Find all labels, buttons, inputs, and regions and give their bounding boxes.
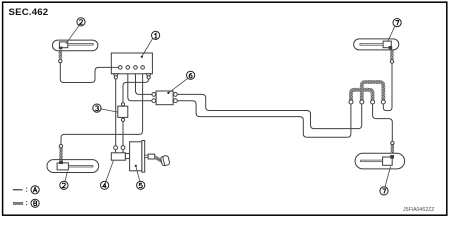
block 4 port stubs: [115, 150, 117, 153]
blob hose 2b bottom-left: [59, 161, 63, 165]
wire: actuator left lower port to master cylinder port A: [115, 79, 117, 146]
hose stub bottom-right: [391, 145, 394, 158]
label 6: [167, 71, 194, 94]
axle hose U tall: fitting2 to fitting4: [362, 82, 384, 101]
master cylinder 5 step collar: [125, 153, 129, 158]
wire: rear circuit P, junction C1 right-top to axle fitting 2: [177, 94, 362, 128]
master cylinder 5 flange: [142, 141, 145, 173]
valve 3 body: [118, 106, 128, 117]
junction 6 port stubs: [154, 93, 157, 95]
svg-text:SEC.462: SEC.462: [9, 7, 49, 18]
hose 7b inner pipe: [361, 160, 383, 162]
hose 2 pipe circle: [59, 59, 62, 62]
wire: actuator right lower port to valve 3 top: [123, 79, 149, 103]
actuator pin stub: [111, 66, 118, 68]
hose 2 inner pipe: [68, 44, 93, 46]
rear hose 7 (top-right) stadium body: [354, 39, 399, 50]
front hose 2 (top-left) stadium body: [52, 40, 98, 51]
wire: rear circuit Q, junction C1 right-bottom to axle fitting 1: [177, 101, 351, 138]
wire: axle fitting 3 to bottom-right hose: [373, 104, 393, 141]
pedal clevis connector: [160, 155, 170, 166]
actuator internal ports: [119, 66, 123, 70]
label 7 top: [388, 19, 402, 42]
legend hose sample B: [13, 202, 23, 204]
label 2 top: [66, 18, 85, 44]
wire: actuator port 2 to junction C1 left-bottom: [128, 69, 152, 101]
master cylinder 5 body: [130, 142, 142, 171]
valve 3 top port: [121, 103, 124, 106]
pushrod block: [148, 154, 155, 159]
hose 7t inner pipe: [360, 44, 383, 46]
hose 2b inner pipe: [68, 166, 93, 168]
hose 7t fitting block: [383, 41, 391, 48]
label 5: [135, 165, 145, 190]
rear hose 7 (bottom-right) stadium body: [355, 153, 405, 169]
blob hose 7t top-right: [389, 46, 393, 49]
hose 7t pipe circle: [390, 60, 393, 63]
actuator lower-right port: [146, 74, 150, 76]
junction connector 6 body: [156, 91, 173, 105]
hose 2b fitting block: [57, 163, 68, 170]
wire: actuator port 3 to junction C1 left-top: [136, 69, 152, 95]
hose 2b pipe circle: [59, 145, 62, 148]
front hose 2 (bottom-left) stadium body: [47, 160, 99, 173]
blob hose 7b bottom-right: [390, 155, 394, 159]
hose 2 fitting block: [59, 42, 67, 48]
hose stub top-right: [390, 48, 393, 60]
label 4: [101, 161, 114, 190]
pushrod hatched link: [155, 157, 163, 162]
wire: top-left hose to actuator port 1: [60, 63, 118, 83]
wire: axle fitting 4 up to top-right hose: [383, 63, 392, 110]
label 1: [141, 31, 160, 58]
legend line sample A: [13, 189, 23, 191]
label 3: [93, 104, 118, 112]
hose 7b fitting block: [383, 157, 393, 165]
hose 7b pipe circle: [391, 141, 394, 144]
blob hose 2 top-left: [59, 47, 62, 50]
valve 3 bottom port: [122, 117, 124, 118]
wire: valve 3 bottom to master cylinder port B: [122, 122, 124, 146]
svg-text:J5FIA0462ZZ: J5FIA0462ZZ: [403, 207, 434, 213]
reservoir block 4: [111, 153, 125, 160]
wire: actuator port 4 down then left to bottom-left front hose: [61, 69, 143, 145]
label 2 bottom: [60, 171, 68, 189]
label 7 bottom: [380, 166, 391, 195]
junction 6 port circles: [152, 93, 156, 97]
pushrod: [145, 155, 148, 157]
actuator lower-left port: [114, 74, 118, 76]
ABS actuator 1 body: [111, 53, 152, 74]
hose stub bottom-left: [59, 148, 62, 163]
hose stub top-left: [59, 48, 62, 59]
block 4 port circles: [114, 146, 118, 150]
axle hose U short: fitting1 to fitting3: [351, 90, 373, 101]
axle fitting circles 1-4: [349, 100, 385, 104]
